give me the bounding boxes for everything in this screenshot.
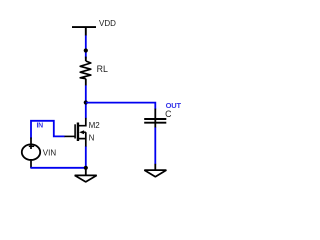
svg-text:M2: M2 (89, 121, 101, 130)
source VIN (AC source) (22, 138, 40, 169)
wire RL to drain node (85, 85, 87, 118)
svg-text:C: C (165, 109, 172, 119)
ground (right, below capacitor) (144, 164, 166, 177)
svg-text:VDD: VDD (99, 19, 116, 28)
transistor M2 (NMOS) (64, 118, 86, 147)
svg-text:N: N (89, 134, 95, 143)
wire VDD to resistor RL (85, 35, 87, 58)
wire VIN bottom to ground node (30, 167, 85, 169)
capacitor C (144, 109, 166, 128)
junction on drain supply wire (84, 48, 88, 52)
wire capacitor to ground (154, 127, 156, 164)
resistor RL (80, 57, 91, 86)
svg-text:VIN: VIN (43, 149, 57, 158)
power rail VDD (72, 27, 96, 35)
svg-text:RL: RL (97, 64, 108, 74)
wire OUT node to capacitor (86, 103, 156, 110)
junction source/ground node (84, 166, 88, 170)
wire source of M2 down to ground node (85, 147, 87, 168)
svg-text:IN: IN (37, 123, 44, 130)
node OUT junction (84, 100, 88, 104)
wire IN from VIN to gate (31, 121, 65, 139)
ground (middle, below M2 source) (75, 168, 97, 182)
